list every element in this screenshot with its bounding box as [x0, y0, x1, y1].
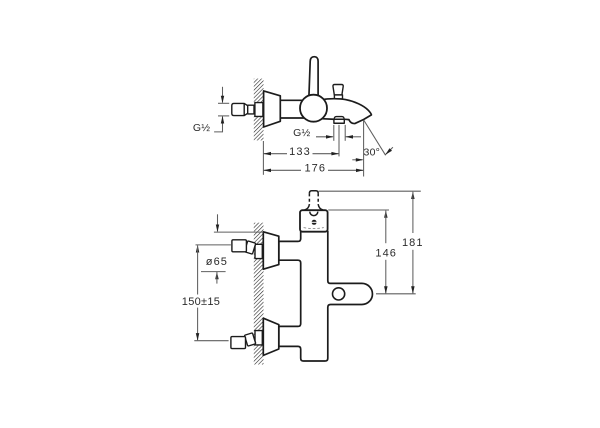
30 degree leader line — [385, 147, 393, 154]
146 upper arrowhead — [384, 210, 388, 218]
svg-text:G½: G½ — [193, 122, 210, 134]
diverter knob — [333, 85, 343, 95]
133 dim line left segment — [263, 153, 287, 155]
cap-top extension line — [328, 209, 389, 211]
G1/2 inlet lower arrowhead — [221, 116, 224, 124]
faucet body outline (front view) — [279, 231, 373, 361]
spout centreline tick — [376, 293, 416, 295]
diverter knob neck — [334, 95, 342, 99]
svg-text:146: 146 — [375, 247, 397, 259]
cap skirt arc — [304, 228, 324, 229]
lever-top extension line — [319, 190, 421, 192]
G1/2 inlet upper arrowhead — [221, 96, 224, 104]
30 degree dimension diagonal — [364, 120, 386, 155]
cartridge cap — [300, 210, 328, 232]
lever (front view) right flare — [318, 204, 323, 210]
G1/2 outlet extension line right — [344, 125, 346, 141]
146 dim line upper — [385, 211, 387, 244]
hand-shower outlet stub — [334, 119, 344, 123]
lever (front view) right edge dashed — [317, 193, 319, 204]
G1/2 outlet extension line left — [333, 125, 335, 141]
176 right arrowhead — [356, 169, 364, 173]
outlet centre extension line — [338, 125, 340, 156]
lever (front view) top cap solid — [309, 191, 318, 194]
G1/2 inlet leader — [214, 117, 222, 132]
181 dim line lower — [412, 250, 414, 294]
181 dim line upper — [412, 192, 414, 233]
escutcheon top tick — [214, 231, 263, 233]
181 upper arrowhead — [411, 191, 415, 199]
176 right extension line (spout tip) — [363, 121, 365, 177]
150+-15 dim line upper — [197, 245, 199, 294]
150+-15 lower arrowhead — [196, 333, 200, 341]
lever handle (side view) — [309, 57, 318, 97]
133 left arrowhead — [263, 152, 271, 156]
svg-text:G½: G½ — [293, 127, 310, 139]
upper union nut — [232, 240, 247, 252]
svg-text:181: 181 — [402, 237, 424, 249]
dia 65 bottom tick — [201, 271, 226, 273]
150+-15 dim line lower — [197, 308, 199, 341]
escutcheon (side view) — [264, 91, 281, 127]
wall-top arrowhead — [216, 225, 219, 233]
133 dim line right segment — [313, 153, 340, 155]
150+-15 upper arrowhead — [196, 245, 200, 253]
dia 65 lower arrow line — [216, 272, 218, 284]
G1/2 outlet right dim line — [346, 136, 361, 138]
133 dimension left extension line — [262, 141, 264, 175]
G1/2 inlet tick top — [218, 102, 229, 104]
wall hatching (side view) — [254, 79, 264, 141]
inlet neck — [248, 105, 254, 114]
upper union tilted nut — [244, 241, 255, 254]
30 degree horizontal arrowhead — [356, 158, 364, 162]
hand-shower hole — [333, 288, 345, 300]
176 dim line left segment — [263, 169, 301, 171]
svg-text:133: 133 — [289, 146, 311, 158]
wall hatching (front view) — [254, 223, 264, 365]
screw — [312, 220, 317, 225]
176 left arrowhead — [263, 169, 271, 173]
146 dim line lower — [385, 260, 387, 294]
G1/2 outlet left arrowhead — [326, 135, 334, 139]
lower union wall socket — [255, 331, 262, 345]
lower union nut — [231, 337, 246, 349]
lower escutcheon (front view) — [263, 318, 279, 355]
30 degree leader arrowhead — [385, 148, 392, 155]
176 dim line right segment — [328, 169, 364, 171]
svg-text:176: 176 — [304, 163, 326, 175]
lever socket semicircle — [310, 212, 318, 216]
G1/2 outlet left dim line — [316, 136, 333, 138]
G1/2 inlet upper arrow line — [222, 87, 224, 103]
supply pipe bottom line — [280, 117, 306, 119]
upper escutcheon (front view) — [263, 232, 279, 269]
svg-text:30°: 30° — [364, 147, 380, 159]
wall-top arrow line — [217, 214, 219, 231]
screw slot — [312, 221, 317, 223]
svg-text:ø65: ø65 — [206, 256, 228, 268]
spout outlet boss — [334, 117, 344, 120]
upper union wall socket — [255, 244, 262, 258]
133 right arrowhead — [331, 152, 339, 156]
supply pipe top line — [280, 99, 305, 101]
dia 65 lower arrowhead — [215, 272, 219, 280]
spout (side view) — [321, 99, 371, 124]
inlet nipple chamfer line — [243, 103, 245, 115]
inlet nipple body — [232, 103, 248, 115]
lever (front view) left edge dashed — [308, 193, 310, 204]
inlet wall socket — [255, 103, 263, 117]
lower union tilted nut — [244, 333, 255, 346]
181 lower arrowhead — [411, 286, 415, 294]
150+-15 lower tick — [194, 340, 228, 342]
svg-text:150±15: 150±15 — [182, 296, 220, 308]
150+-15 upper tick — [196, 244, 231, 246]
146 lower arrowhead — [384, 286, 388, 294]
G1/2 inlet tick bottom — [218, 115, 229, 117]
mixer cartridge body (circle) — [300, 95, 327, 122]
lever (front view) left flare — [305, 204, 310, 210]
30 degree horizontal arrow line — [352, 159, 362, 161]
G1/2 outlet right arrowhead — [345, 135, 353, 139]
